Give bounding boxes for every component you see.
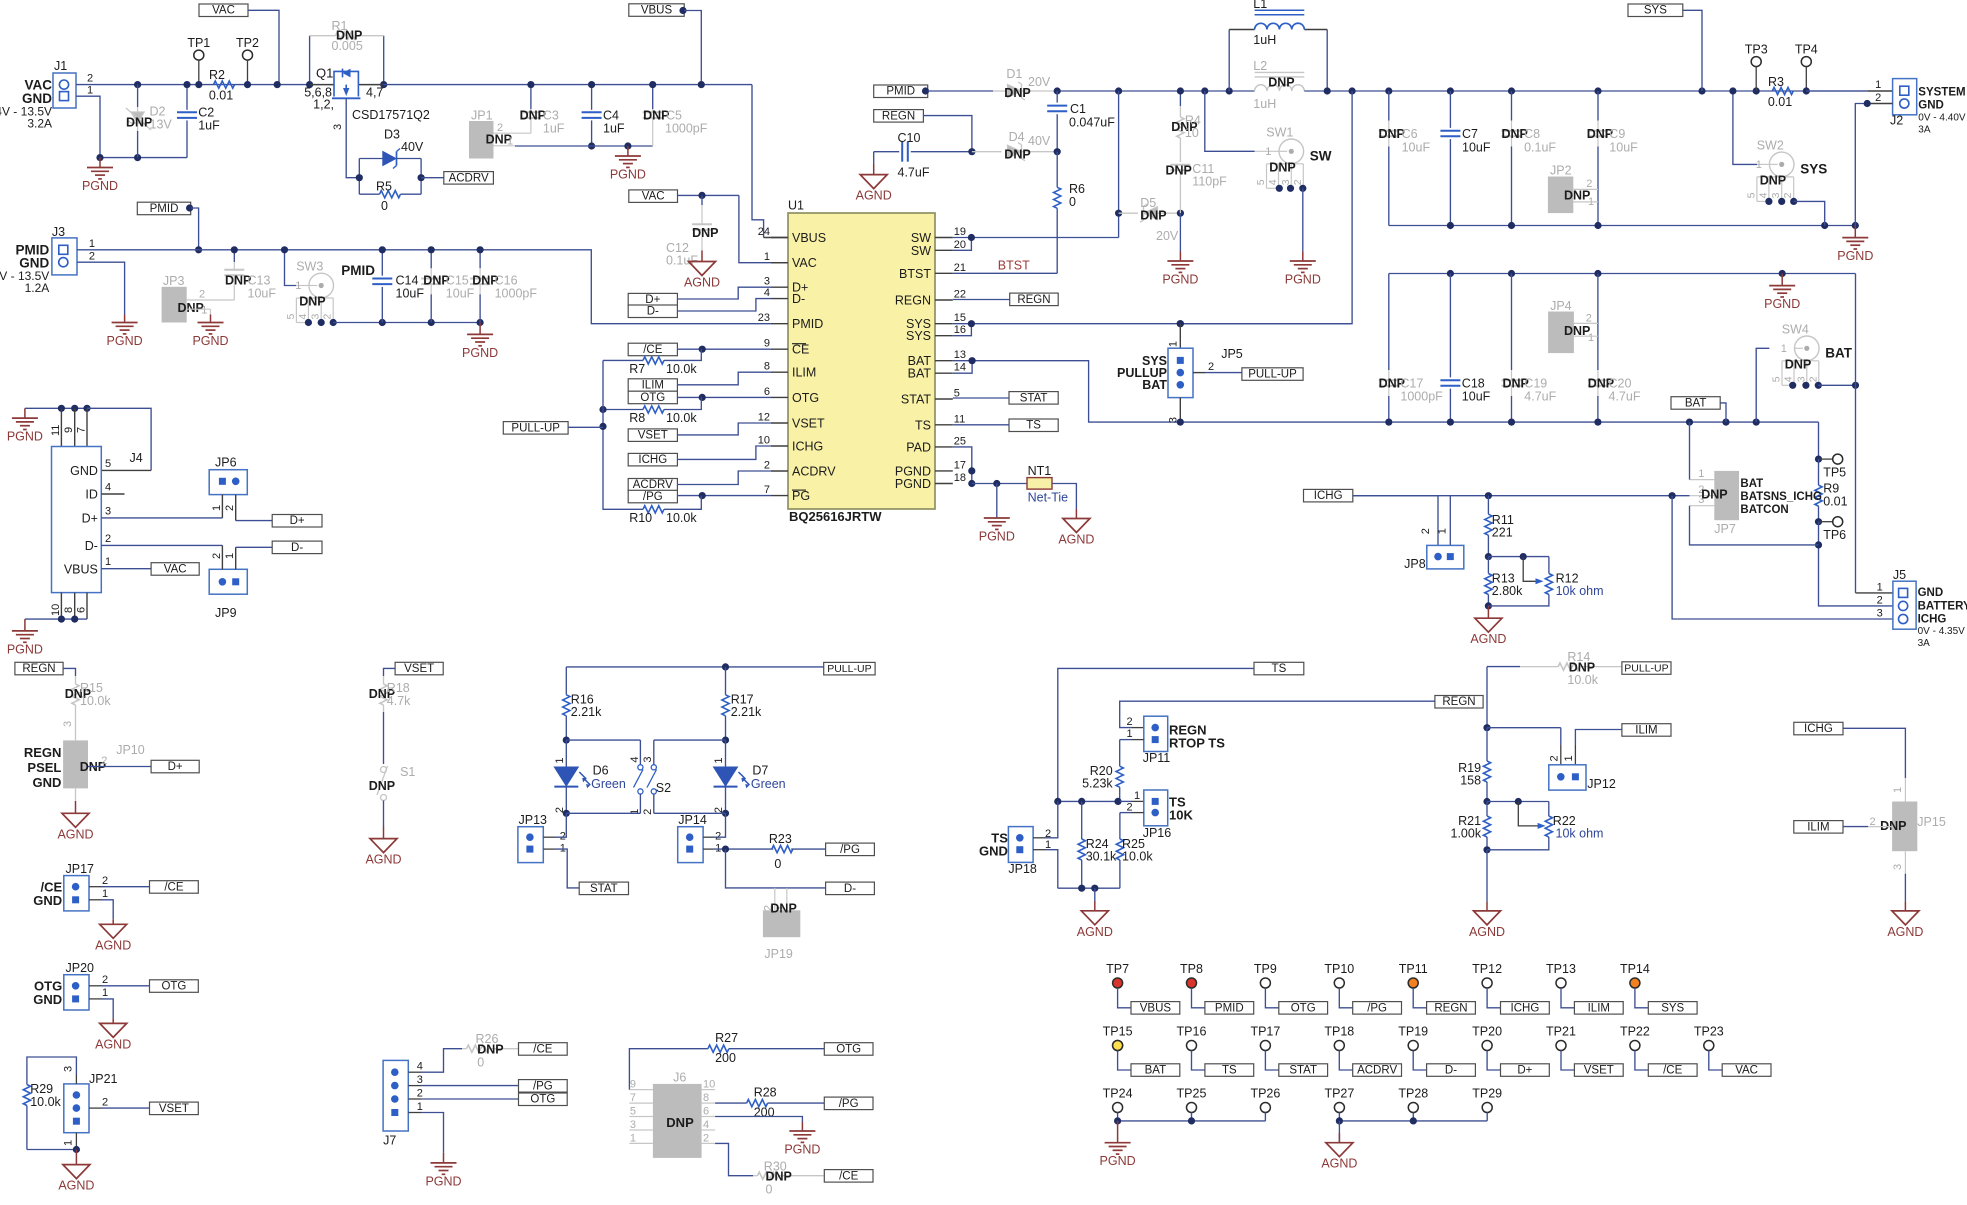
jumper JP11 xyxy=(1144,716,1168,751)
svg-text:1: 1 xyxy=(201,305,207,317)
wire JP20 pin1 to AGND xyxy=(89,998,102,1000)
svg-text:C4: C4 xyxy=(603,109,619,123)
wire REGN to C10 xyxy=(923,116,972,152)
svg-text:TP22: TP22 xyxy=(1620,1025,1650,1039)
svg-text:1: 1 xyxy=(105,556,111,568)
svg-text:110pF: 110pF xyxy=(1192,175,1227,189)
wire VBUS rail to U1 pin24 xyxy=(752,85,764,238)
pin 19 SW xyxy=(935,237,953,239)
svg-text:1: 1 xyxy=(1698,468,1704,480)
net label STAT TP17 xyxy=(1279,1064,1328,1077)
pin 22 REGN xyxy=(935,299,953,301)
svg-text:TP4: TP4 xyxy=(1795,43,1818,57)
net label OTG R27 xyxy=(824,1043,873,1056)
svg-text:DNP: DNP xyxy=(477,1043,503,1057)
svg-text:10.0k: 10.0k xyxy=(1567,673,1598,687)
wire J4 GND pin5 loop xyxy=(87,408,151,470)
svg-text:DNP: DNP xyxy=(1269,160,1295,174)
svg-text:1: 1 xyxy=(630,1132,636,1144)
svg-text:5: 5 xyxy=(1745,192,1757,198)
jumper JP9 xyxy=(209,569,247,594)
svg-text:AGND: AGND xyxy=(58,1179,94,1193)
ground PGND J2 xyxy=(1854,226,1856,238)
wire ICHG label to JP8 xyxy=(1353,495,1438,497)
svg-text:7: 7 xyxy=(630,1092,636,1104)
inductor L2 DNP xyxy=(1255,85,1305,91)
svg-text:JP11: JP11 xyxy=(1143,751,1171,765)
svg-text:BATSNS_ICHG: BATSNS_ICHG xyxy=(1740,491,1822,503)
wire J4 D- pin2 xyxy=(101,544,222,546)
testpoint TP4 xyxy=(1801,57,1811,67)
svg-text:2: 2 xyxy=(1548,755,1560,761)
svg-text:VSET: VSET xyxy=(404,663,434,675)
svg-text:S2: S2 xyxy=(656,781,671,795)
svg-text:BAT: BAT xyxy=(1142,378,1167,392)
svg-text:R9: R9 xyxy=(1823,482,1839,496)
jumper JP20 xyxy=(64,975,89,1010)
net label PMID TP8 xyxy=(1205,1002,1254,1015)
wire top rail right of Q1 xyxy=(384,84,752,86)
svg-text:TS: TS xyxy=(1272,663,1287,675)
wire PMID to D1 xyxy=(928,90,993,92)
net label ICHG TP12 xyxy=(1501,1002,1550,1015)
svg-text:25: 25 xyxy=(954,435,966,447)
svg-text:13: 13 xyxy=(954,349,966,361)
svg-text:18: 18 xyxy=(954,472,966,484)
svg-text:S1: S1 xyxy=(400,765,415,779)
svg-text:PGND: PGND xyxy=(1837,249,1873,263)
svg-text:AGND: AGND xyxy=(1321,1157,1357,1171)
pin 16 SYS xyxy=(935,335,953,337)
svg-text:ILIM: ILIM xyxy=(1588,1002,1610,1014)
svg-text:10uF: 10uF xyxy=(1402,141,1431,155)
jumper JP15 DNP xyxy=(1892,802,1917,852)
ground PGND J3 xyxy=(112,322,138,324)
capacitor C1 xyxy=(1056,91,1058,103)
pin 5 STAT xyxy=(935,398,953,400)
svg-text:14: 14 xyxy=(954,362,966,374)
svg-text:1000pF: 1000pF xyxy=(665,122,708,136)
pin 10 ICHG xyxy=(771,445,788,447)
svg-text:0: 0 xyxy=(477,1056,484,1070)
diode D1 DNP xyxy=(1008,85,1022,98)
svg-text:JP13: JP13 xyxy=(519,813,548,827)
wire ICHG to JP15 xyxy=(1843,728,1905,778)
svg-text:R10: R10 xyxy=(629,511,652,525)
pin 17 PGND xyxy=(935,470,953,472)
svg-text:TP6: TP6 xyxy=(1823,528,1846,542)
svg-text:VAC: VAC xyxy=(792,256,817,270)
svg-text:SW: SW xyxy=(911,244,931,258)
svg-text:6: 6 xyxy=(703,1106,709,1118)
svg-text:PMID: PMID xyxy=(1215,1002,1244,1014)
wire J7 pin2 to OTG xyxy=(408,1098,421,1100)
svg-text:PGND: PGND xyxy=(1162,273,1198,287)
net label D- JP14 xyxy=(826,882,875,895)
net label VSET JP21 xyxy=(150,1102,199,1115)
svg-text:REGN: REGN xyxy=(1442,696,1475,708)
wire REGN to JP11 pin2 xyxy=(1120,701,1435,727)
net label /CE J7 xyxy=(519,1043,568,1056)
svg-text:2: 2 xyxy=(1292,179,1304,185)
svg-text:AGND: AGND xyxy=(856,189,892,203)
svg-text:9: 9 xyxy=(63,427,75,433)
svg-text:DNP: DNP xyxy=(770,902,796,916)
svg-text:2: 2 xyxy=(89,251,95,263)
svg-text:JP10: JP10 xyxy=(116,743,145,757)
svg-text:7: 7 xyxy=(764,484,770,496)
svg-text:10uF: 10uF xyxy=(1609,141,1638,155)
svg-text:L1: L1 xyxy=(1253,0,1267,11)
wire JP10 pin2 to D+ label xyxy=(88,766,151,768)
svg-text:1: 1 xyxy=(1134,790,1140,802)
svg-text:DNP: DNP xyxy=(1701,488,1727,502)
svg-text:ACDRV: ACDRV xyxy=(449,172,489,184)
switch SW1 xyxy=(1205,91,1255,151)
svg-text:SW: SW xyxy=(1310,148,1332,163)
svg-text:/CE: /CE xyxy=(164,881,184,893)
svg-text:1uH: 1uH xyxy=(1253,97,1276,111)
net label PULL-UP jp5 xyxy=(1242,368,1303,381)
jumper JP7 DNP xyxy=(1714,471,1739,520)
svg-text:10.0k: 10.0k xyxy=(666,362,697,376)
wire R9 to J5 pin2 xyxy=(1819,522,1893,606)
net label REGN mid2 xyxy=(1435,696,1483,709)
svg-text:VSET: VSET xyxy=(1584,1065,1614,1077)
svg-text:PGND: PGND xyxy=(1100,1154,1136,1168)
net label ILIM xyxy=(628,379,677,392)
svg-text:D-: D- xyxy=(844,883,856,895)
net label REGN right xyxy=(953,299,1010,301)
svg-text:2: 2 xyxy=(703,1132,709,1144)
capacitor C15 DNP xyxy=(430,250,432,268)
wire PMID rail to pin23 xyxy=(480,250,771,324)
svg-text:TP13: TP13 xyxy=(1546,962,1576,976)
net label STAT JP13 xyxy=(579,882,628,895)
svg-text:C8: C8 xyxy=(1524,127,1540,141)
svg-text:DNP: DNP xyxy=(178,301,204,315)
svg-text:STAT: STAT xyxy=(590,883,618,895)
svg-text:R18: R18 xyxy=(387,681,410,695)
svg-text:PGND: PGND xyxy=(82,179,118,193)
svg-text:R29: R29 xyxy=(30,1082,53,1096)
wire R11 R13 node xyxy=(1488,556,1549,558)
ground AGND R21 xyxy=(1486,850,1488,902)
svg-text:/PG: /PG xyxy=(643,491,663,503)
wire J1 pin2 rail xyxy=(76,84,310,86)
svg-text:PULL-UP: PULL-UP xyxy=(511,422,560,434)
pin 14 BAT xyxy=(935,372,953,374)
wire C11 to PGND xyxy=(1179,213,1181,251)
wire J4 D+ pin3 xyxy=(101,517,222,519)
resistor R15 DNP xyxy=(75,676,77,684)
svg-text:1: 1 xyxy=(89,238,95,250)
net label ACDRV TP18 xyxy=(1353,1064,1402,1077)
wire TS label left and down xyxy=(1058,668,1254,801)
svg-text:C20: C20 xyxy=(1609,377,1632,391)
resistor R24 xyxy=(1081,801,1083,839)
ground PGND J6 xyxy=(789,1130,815,1132)
wire D- to pin4 xyxy=(677,299,771,311)
wire SW4 gnd to vertical xyxy=(1818,384,1855,386)
svg-text:15: 15 xyxy=(954,312,966,324)
svg-text:C10: C10 xyxy=(898,131,921,145)
svg-text:JP1: JP1 xyxy=(471,109,493,123)
svg-text:10: 10 xyxy=(1185,126,1199,140)
svg-text:ICHG: ICHG xyxy=(1511,1002,1540,1014)
svg-text:REGN: REGN xyxy=(22,663,55,675)
svg-text:2: 2 xyxy=(105,533,111,545)
svg-text:ILIM: ILIM xyxy=(1807,821,1829,833)
ground PGND SW1 xyxy=(1290,260,1316,262)
net label VAC J4 xyxy=(151,563,199,576)
net label SYS top xyxy=(1628,4,1683,17)
svg-text:TP25: TP25 xyxy=(1177,1087,1207,1101)
wire to ACDRV xyxy=(421,177,444,179)
svg-text:10k ohm: 10k ohm xyxy=(1556,827,1604,841)
svg-text:TP5: TP5 xyxy=(1823,466,1846,480)
svg-text:0: 0 xyxy=(381,199,388,213)
ground AGND TS xyxy=(1094,888,1096,901)
wire JP3 pin2 to C13 xyxy=(211,299,235,301)
svg-text:TP7: TP7 xyxy=(1106,962,1129,976)
jumper JP16 xyxy=(1144,790,1168,826)
svg-text:JP19: JP19 xyxy=(764,947,793,961)
svg-text:3A: 3A xyxy=(1918,638,1931,649)
capacitor C16 DNP xyxy=(479,250,481,268)
svg-text:1: 1 xyxy=(417,1101,423,1113)
ground PGND C16 xyxy=(479,323,481,335)
svg-text:JP21: JP21 xyxy=(89,1072,118,1086)
svg-text:7: 7 xyxy=(76,427,88,433)
capacitor C8 DNP xyxy=(1511,91,1513,121)
svg-text:BAT: BAT xyxy=(1825,345,1852,360)
svg-text:221: 221 xyxy=(1492,526,1513,540)
wire VSET to R18 xyxy=(384,668,396,676)
IC U1 BQ25616JRTW xyxy=(788,213,935,509)
resistor R10 xyxy=(603,426,643,509)
net label PULL-UP right xyxy=(1622,662,1671,675)
svg-text:PSEL: PSEL xyxy=(27,760,61,775)
pin 7 PG xyxy=(771,495,788,497)
svg-text:SYS: SYS xyxy=(1800,161,1827,176)
svg-text:ILIM: ILIM xyxy=(792,366,816,380)
svg-text:D7: D7 xyxy=(752,764,768,778)
svg-text:3: 3 xyxy=(1892,864,1904,870)
wire BAT pins 13-14 xyxy=(953,361,972,374)
svg-text:/PG: /PG xyxy=(533,1080,553,1092)
svg-text:1: 1 xyxy=(295,280,301,292)
net label D- J4 xyxy=(272,541,322,554)
svg-text:PGND: PGND xyxy=(784,1143,820,1157)
svg-text:SYS: SYS xyxy=(1644,5,1667,17)
svg-text:1: 1 xyxy=(102,888,108,900)
svg-text:10uF: 10uF xyxy=(1462,141,1491,155)
pin 12 VSET xyxy=(771,422,788,424)
net label STAT right xyxy=(1009,392,1058,405)
svg-text:GND: GND xyxy=(33,893,62,908)
wire OTG to pin6 xyxy=(677,396,771,398)
net label OTG TP9 xyxy=(1279,1002,1328,1015)
svg-text:C5: C5 xyxy=(666,109,682,123)
svg-text:JP4: JP4 xyxy=(1550,299,1572,313)
net label ILIM right2 xyxy=(1794,821,1843,834)
svg-text:C15: C15 xyxy=(446,274,469,288)
pin 24 VBUS xyxy=(771,237,788,239)
net label ILIM right1 xyxy=(1622,724,1671,737)
net label VSET xyxy=(628,429,677,442)
svg-text:4: 4 xyxy=(1757,192,1769,198)
svg-text:R2: R2 xyxy=(209,68,225,82)
capacitor C13 DNP xyxy=(233,250,235,262)
svg-text:ICHG: ICHG xyxy=(1918,613,1947,625)
svg-text:Q1: Q1 xyxy=(316,66,333,81)
svg-text:ACDRV: ACDRV xyxy=(633,479,673,491)
wire PGND vertical to J5 xyxy=(1855,274,1857,593)
svg-text:STAT: STAT xyxy=(1020,392,1048,404)
ground AGND JP15 xyxy=(1892,911,1919,925)
svg-text:C6: C6 xyxy=(1402,127,1418,141)
svg-text:10.0k: 10.0k xyxy=(666,511,697,525)
svg-text:3: 3 xyxy=(1877,608,1883,620)
svg-text:BTST: BTST xyxy=(899,267,931,281)
ground PGND caps xyxy=(627,146,629,156)
svg-text:2: 2 xyxy=(1877,594,1883,606)
testpoint TP3 xyxy=(1751,57,1761,67)
wire NT1 to AGND xyxy=(1052,484,1076,510)
svg-text:/PG: /PG xyxy=(839,1098,859,1110)
svg-text:10.0k: 10.0k xyxy=(30,1095,61,1109)
svg-text:VBUS: VBUS xyxy=(1140,1002,1172,1014)
wire J4 VBUS pin1 to VAC xyxy=(101,568,151,570)
svg-text:0.1uF: 0.1uF xyxy=(1524,141,1556,155)
svg-text:DNP: DNP xyxy=(666,1115,694,1130)
ground PGND TP24 xyxy=(1117,1121,1119,1143)
svg-text:DNP: DNP xyxy=(1166,164,1192,178)
svg-text:20V: 20V xyxy=(1028,75,1051,89)
svg-text:21: 21 xyxy=(954,262,966,274)
svg-text:DNP: DNP xyxy=(692,226,718,240)
net label PMID right xyxy=(874,85,928,98)
svg-text:5: 5 xyxy=(1771,376,1783,382)
net label VSET TP21 xyxy=(1574,1064,1623,1077)
svg-text:SYS: SYS xyxy=(906,329,931,343)
net label /CE R30 xyxy=(824,1170,873,1183)
svg-text:D-: D- xyxy=(647,306,659,318)
pin 1 VAC xyxy=(771,262,788,264)
connector J3 xyxy=(52,238,77,275)
wire PGND to NT1 xyxy=(972,483,1027,485)
jumper JP18 xyxy=(1008,827,1033,863)
capacitor C14 xyxy=(381,250,383,276)
svg-text:1: 1 xyxy=(1588,332,1594,344)
net label D+ xyxy=(628,293,677,306)
svg-text:3: 3 xyxy=(764,276,770,288)
svg-text:1000pF: 1000pF xyxy=(1400,390,1443,404)
svg-text:BQ25616JRTW: BQ25616JRTW xyxy=(789,509,882,524)
svg-text:2: 2 xyxy=(1586,313,1592,325)
svg-text:2: 2 xyxy=(764,460,770,472)
svg-text:1: 1 xyxy=(713,758,725,764)
svg-text:23: 23 xyxy=(758,312,770,324)
ground PGND U1 xyxy=(996,484,998,518)
svg-text:D2: D2 xyxy=(150,105,166,119)
capacitor C18 xyxy=(1449,274,1451,378)
ground AGND S1 xyxy=(370,839,397,853)
svg-text:5: 5 xyxy=(630,1106,636,1118)
net label ILIM TP13 xyxy=(1574,1002,1623,1015)
svg-text:1: 1 xyxy=(211,505,223,511)
wire J6 pin9 to R27 xyxy=(629,1049,708,1090)
svg-text:4: 4 xyxy=(764,287,770,299)
svg-text:PMID: PMID xyxy=(886,86,915,98)
svg-text:TP1: TP1 xyxy=(187,36,210,50)
svg-text:VBUS: VBUS xyxy=(641,5,673,17)
svg-text:/CE: /CE xyxy=(643,344,663,356)
svg-text:PGND: PGND xyxy=(1285,273,1321,287)
svg-text:ICHG: ICHG xyxy=(638,454,667,466)
wire ILIM to pin8 xyxy=(677,372,771,385)
net label /PG R28 xyxy=(824,1097,873,1110)
svg-text:C13: C13 xyxy=(248,274,271,288)
ground AGND R13 xyxy=(1487,606,1489,618)
pin 23 PMID xyxy=(771,323,788,325)
svg-text:PULL-UP: PULL-UP xyxy=(1248,369,1297,381)
wire SYS pins 15-16 xyxy=(953,324,972,336)
svg-text:AGND: AGND xyxy=(1887,925,1923,939)
svg-text:C18: C18 xyxy=(1462,377,1485,391)
svg-text:J7: J7 xyxy=(383,1134,396,1148)
svg-text:1: 1 xyxy=(1877,581,1883,593)
svg-text:D-: D- xyxy=(1445,1065,1457,1077)
connector J4 xyxy=(52,447,102,593)
svg-text:17: 17 xyxy=(954,459,966,471)
wire R14 down to ILIM row xyxy=(1486,667,1488,728)
svg-text:BAT: BAT xyxy=(1685,397,1707,409)
svg-text:1: 1 xyxy=(554,758,566,764)
svg-text:1uF: 1uF xyxy=(198,119,220,133)
pin 3 D+ xyxy=(771,286,788,288)
svg-text:200: 200 xyxy=(754,1106,775,1120)
wire JP7 pin1 to BAT rail xyxy=(1689,422,1691,480)
svg-text:19: 19 xyxy=(954,226,966,238)
svg-text:4: 4 xyxy=(703,1119,709,1131)
svg-text:Green: Green xyxy=(591,777,626,791)
ground PGND J1 xyxy=(99,158,101,168)
svg-text:DNP: DNP xyxy=(1140,209,1166,223)
wire D+ to pin3 xyxy=(677,287,771,299)
svg-text:U1: U1 xyxy=(788,199,804,213)
svg-text:2: 2 xyxy=(322,314,334,320)
svg-text:VBUS: VBUS xyxy=(64,562,98,576)
svg-text:C2: C2 xyxy=(198,106,214,120)
svg-text:AGND: AGND xyxy=(1077,925,1113,939)
wire BAT rail down to R9 xyxy=(1818,422,1820,459)
wire PULL-UP to rail xyxy=(568,426,603,428)
svg-text:11: 11 xyxy=(50,425,62,436)
svg-text:TP14: TP14 xyxy=(1620,962,1650,976)
svg-text:SW4: SW4 xyxy=(1782,322,1809,336)
resistor R25 xyxy=(1131,812,1144,814)
svg-text:DNP: DNP xyxy=(1564,189,1590,203)
svg-text:D6: D6 xyxy=(593,764,609,778)
wire SW2 to PGND rail xyxy=(1794,201,1825,225)
wire ICHG to pin10 xyxy=(677,446,771,459)
ground PGND JP3 xyxy=(198,322,224,324)
svg-text:AGND: AGND xyxy=(365,853,401,867)
svg-text:3.2A: 3.2A xyxy=(27,117,52,131)
net label D+ TP20 xyxy=(1501,1064,1550,1077)
